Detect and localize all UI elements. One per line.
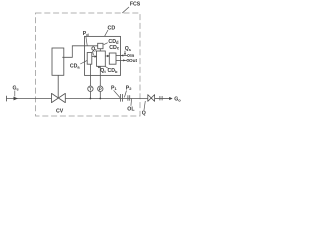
leader CD bbox=[105, 30, 109, 36]
svg-text:Ge: Ge bbox=[13, 86, 20, 92]
svg-text:CDb: CDb bbox=[108, 68, 119, 74]
svg-text:Go: Go bbox=[174, 97, 181, 103]
svg-text:P2: P2 bbox=[126, 85, 132, 91]
flow calc CDb box bbox=[97, 51, 106, 66]
svg-text:T: T bbox=[89, 87, 92, 92]
orifice OL bars bbox=[127, 95, 129, 101]
control valve CV bowtie bbox=[52, 93, 66, 102]
wire CDd to CDb bbox=[99, 49, 101, 51]
svg-text:CV: CV bbox=[56, 109, 64, 115]
svg-text:Qt: Qt bbox=[100, 68, 106, 74]
P sensor wire up bbox=[99, 66, 101, 86]
leader Qt top bbox=[93, 51, 94, 55]
P stem to pipe bbox=[99, 92, 101, 99]
flow arrow Ge bbox=[14, 97, 19, 101]
arrow CDa to CDb bbox=[92, 56, 96, 58]
T sensor wire up bbox=[89, 64, 91, 86]
Qs arrow down bbox=[124, 51, 126, 54]
comparison CDc box bbox=[109, 53, 116, 64]
svg-text:Q: Q bbox=[142, 111, 146, 117]
Out line bbox=[116, 59, 127, 61]
FCS enclosure dashed box bbox=[36, 13, 141, 116]
control circuit CD box bbox=[85, 36, 121, 75]
T stem to pipe bbox=[89, 92, 91, 99]
In terminal bbox=[128, 55, 130, 57]
svg-text:CDa: CDa bbox=[70, 64, 81, 70]
arrow CDb to CDc bbox=[105, 55, 108, 57]
leader Pd bbox=[86, 36, 87, 46]
valve drive rectangle bbox=[52, 48, 64, 75]
Out terminal bbox=[127, 59, 129, 61]
leader Q bbox=[144, 101, 145, 110]
leader P2 bbox=[124, 91, 126, 98]
In line bbox=[116, 55, 127, 57]
pipe bbox=[155, 98, 170, 100]
pipe bbox=[65, 98, 148, 100]
svg-text:CD: CD bbox=[108, 26, 116, 32]
temperature correction CDa box bbox=[87, 53, 92, 65]
leader P1 bbox=[114, 90, 120, 97]
leader Qt arrow bbox=[99, 67, 101, 68]
outlet arrow bbox=[169, 97, 172, 100]
svg-text:FCS: FCS bbox=[130, 1, 141, 7]
svg-text:P: P bbox=[99, 87, 102, 92]
leader Ge bbox=[14, 91, 16, 97]
P sensor circle bbox=[98, 86, 103, 91]
pipe (main gas line) bbox=[7, 98, 52, 100]
inlet tick bbox=[6, 96, 8, 102]
svg-text:Qs: Qs bbox=[125, 46, 132, 52]
svg-text:OL: OL bbox=[127, 106, 135, 112]
T sensor circle bbox=[88, 86, 93, 91]
svg-text:Qt: Qt bbox=[91, 47, 97, 53]
valve stem bbox=[57, 75, 59, 98]
leader FCS bbox=[122, 7, 129, 13]
wire drive to CD bbox=[62, 46, 97, 58]
leader CDa bbox=[80, 60, 87, 64]
joint ticks bbox=[159, 96, 161, 100]
leader CDb bbox=[105, 66, 108, 68]
svg-text:CDc: CDc bbox=[109, 45, 120, 51]
amplifier CDd box bbox=[98, 43, 103, 48]
leader OL bbox=[130, 99, 133, 106]
joint bars bbox=[119, 94, 121, 102]
outlet valve bowtie bbox=[148, 95, 155, 102]
leader CDd bbox=[104, 43, 108, 45]
svg-text:Out: Out bbox=[129, 58, 138, 63]
